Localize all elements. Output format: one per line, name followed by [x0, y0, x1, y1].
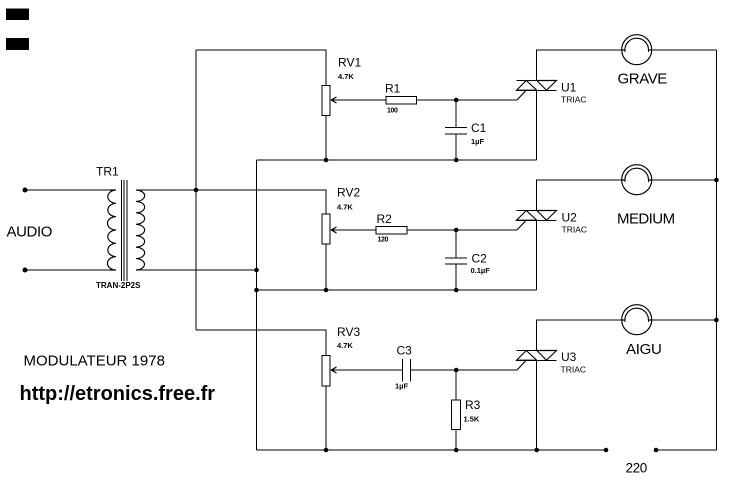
- svg-text:MEDIUM: MEDIUM: [617, 211, 675, 228]
- svg-text:http://etronics.free.fr: http://etronics.free.fr: [20, 383, 216, 405]
- triac U1: [517, 81, 557, 91]
- wire transformer secondary bottom to bus: [136, 269, 257, 271]
- svg-text:AUDIO: AUDIO: [7, 224, 53, 241]
- svg-text:1µF: 1µF: [395, 382, 408, 391]
- wire U2 to lamp MEDIUM: [537, 180, 622, 211]
- transformer TR1 core: [121, 180, 127, 281]
- wire ch1 top from left bus to RV1 top: [196, 50, 326, 86]
- svg-text:1.5K: 1.5K: [464, 415, 480, 424]
- node RV1 bottom: [324, 158, 329, 163]
- svg-text:AIGU: AIGU: [626, 341, 661, 358]
- triac U2: [517, 211, 557, 221]
- wire lamp MEDIUM to right rail: [652, 179, 717, 181]
- svg-text:4.7K: 4.7K: [338, 72, 354, 81]
- capacitor C1: [445, 100, 467, 160]
- svg-text:C2: C2: [472, 252, 488, 266]
- svg-text:TR1: TR1: [96, 165, 119, 179]
- wire U3 bottom: [536, 360, 538, 450]
- transformer TR1 secondary coil: [136, 190, 145, 270]
- wire R2 to U2 gate: [407, 229, 517, 231]
- resistor R3: [455, 370, 457, 400]
- node bus2 / secondary bottom: [254, 268, 259, 273]
- node bus2 / ch2 rail: [254, 288, 259, 293]
- svg-text:120: 120: [378, 237, 389, 244]
- node R1/C1 junction: [454, 98, 459, 103]
- transformer TR1 primary coil: [108, 190, 117, 270]
- wire ch2 top: transformer secondary to RV2: [136, 190, 326, 214]
- corner mark bottom: [6, 38, 29, 50]
- wire U1 bottom: [536, 90, 538, 160]
- resistor R1: [386, 97, 417, 105]
- wire RV3 wiper arrow: [332, 369, 403, 371]
- right rail: [715, 50, 717, 450]
- svg-text:RV3: RV3: [337, 325, 360, 339]
- wire U1 to lamp GRAVE: [537, 50, 622, 81]
- svg-text:TRIAC: TRIAC: [561, 365, 587, 375]
- node C3/R3 junction: [454, 368, 459, 373]
- svg-text:C1: C1: [471, 121, 487, 135]
- wire ch2 bottom rail: [257, 289, 537, 291]
- svg-text:R1: R1: [385, 82, 401, 96]
- svg-text:RV1: RV1: [338, 56, 361, 70]
- svg-text:0.1µF: 0.1µF: [471, 266, 491, 275]
- wire ch3 top: left bus to RV3: [196, 330, 326, 356]
- svg-text:220: 220: [626, 461, 647, 476]
- svg-text:4.7K: 4.7K: [337, 341, 353, 350]
- svg-text:R3: R3: [465, 398, 481, 412]
- node right rail / MEDIUM: [714, 178, 719, 183]
- potentiometer RV3: [322, 356, 330, 387]
- node AUDIO top terminal: [23, 188, 28, 193]
- wire RV2 wiper arrow: [332, 229, 376, 231]
- svg-text:R2: R2: [377, 212, 393, 226]
- potentiometer RV1: [322, 86, 330, 116]
- wire RV1 wiper arrow: [332, 99, 386, 101]
- node U3 bottom: [534, 448, 539, 453]
- svg-text:4.7K: 4.7K: [337, 203, 353, 212]
- wire R1 to U1 gate: [417, 99, 518, 101]
- lamp MEDIUM: [622, 165, 652, 195]
- node left bus / secondary top: [194, 188, 199, 193]
- node right rail / AIGU: [714, 318, 719, 323]
- wire AUDIO input top: [25, 189, 110, 191]
- wire lamp AIGU to right rail: [652, 319, 717, 321]
- node R2/C2 junction: [454, 228, 459, 233]
- svg-text:RV2: RV2: [337, 186, 360, 200]
- node C1 bottom: [454, 158, 459, 163]
- svg-text:U2: U2: [562, 211, 578, 225]
- node R3 bottom: [454, 448, 459, 453]
- svg-text:1µF: 1µF: [471, 137, 484, 146]
- triac U3: [517, 351, 557, 361]
- left bus: [195, 50, 197, 330]
- wire RV3 bottom: [325, 386, 327, 450]
- svg-text:U3: U3: [561, 350, 577, 364]
- potentiometer RV2: [322, 214, 330, 244]
- wire U3 to lamp AIGU: [537, 320, 622, 351]
- wire ch1 bottom rail: [257, 159, 537, 161]
- resistor R2: [376, 227, 407, 235]
- wire C3 to U3 gate: [411, 369, 518, 371]
- corner mark top: [6, 9, 29, 21]
- node C2 bottom: [454, 288, 459, 293]
- node AUDIO bottom terminal: [23, 268, 28, 273]
- bus 2: [256, 160, 258, 450]
- wire AUDIO input bottom: [25, 269, 110, 271]
- node RV2 bottom: [324, 288, 329, 293]
- capacitor C2: [445, 230, 467, 290]
- lamp AIGU: [622, 305, 652, 335]
- node 220 terminal left: [604, 448, 609, 453]
- svg-text:100: 100: [387, 108, 398, 115]
- capacitor C3: [403, 359, 411, 382]
- node 220 terminal right: [654, 448, 659, 453]
- node RV3 bottom: [324, 448, 329, 453]
- lamp GRAVE: [622, 35, 652, 65]
- svg-text:C3: C3: [397, 344, 413, 358]
- svg-text:MODULATEUR 1978: MODULATEUR 1978: [24, 353, 165, 370]
- svg-text:TRAN-2P2S: TRAN-2P2S: [96, 281, 141, 290]
- wire RV1 bottom: [325, 116, 327, 161]
- svg-text:U1: U1: [561, 81, 577, 95]
- svg-text:TRIAC: TRIAC: [561, 95, 587, 105]
- wire U2 bottom: [536, 220, 538, 290]
- wire ch3 bottom rail right: [656, 449, 716, 451]
- wire RV2 bottom: [325, 244, 327, 290]
- wire lamp GRAVE to right rail: [652, 49, 717, 51]
- svg-text:GRAVE: GRAVE: [618, 71, 668, 88]
- wire ch3 bottom rail left: [257, 449, 607, 451]
- svg-text:TRIAC: TRIAC: [562, 225, 588, 235]
